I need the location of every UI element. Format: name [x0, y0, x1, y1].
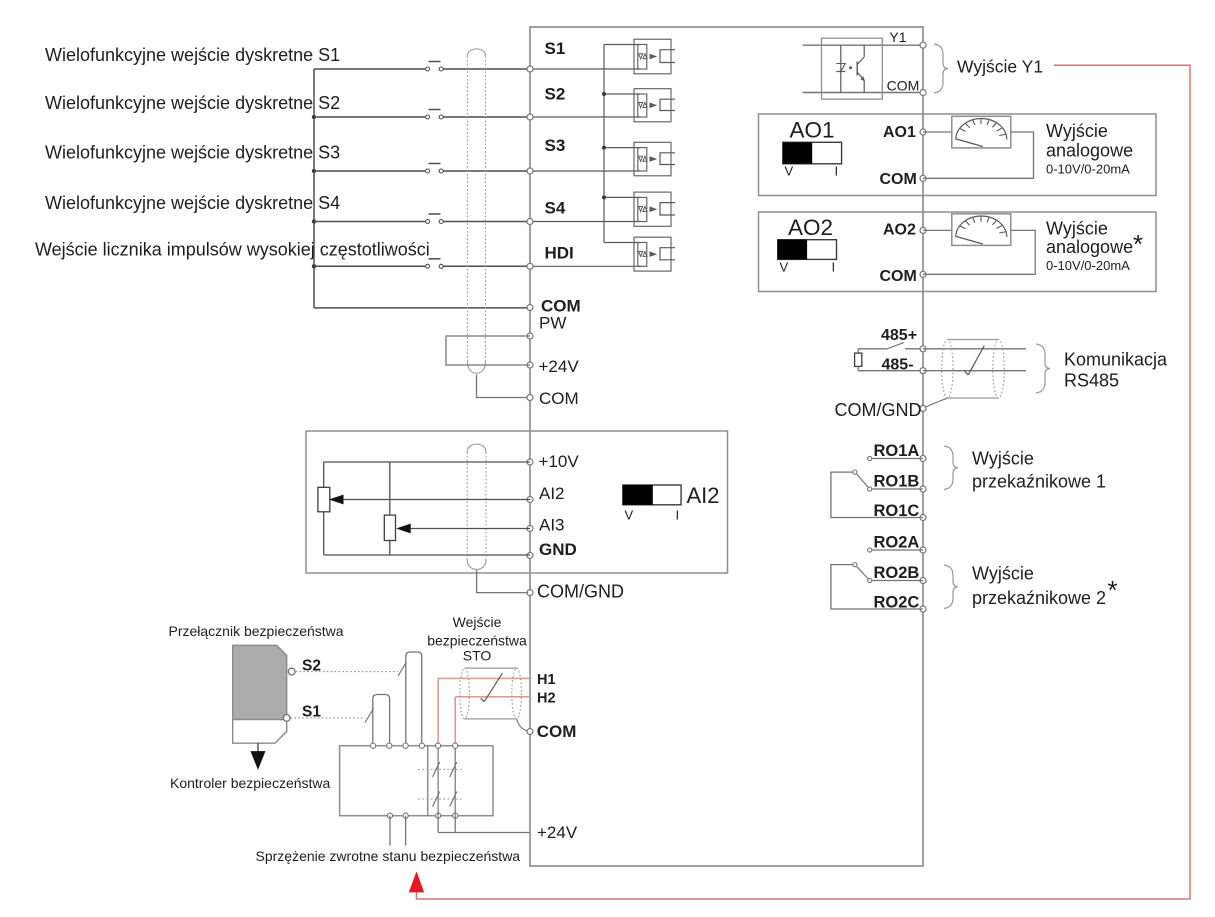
safety controller box — [340, 746, 493, 816]
shield (analog input cable) — [467, 444, 486, 569]
label S2 (safety) — [302, 658, 321, 675]
terminal GND (pin circle) — [527, 553, 533, 559]
label V (AI2) — [625, 508, 634, 523]
LED in Y1 opto — [836, 45, 852, 92]
svg-text:COM/GND: COM/GND — [537, 581, 624, 601]
brace relay 1 — [944, 446, 958, 490]
twisted pair symbol — [965, 346, 985, 375]
wire: bus stub to opto S2 — [604, 93, 640, 95]
wire: shield drain to COM/GND — [926, 398, 948, 407]
terminal PW (pin circle) — [527, 333, 533, 339]
svg-text:I: I — [832, 260, 836, 275]
controller top pin at x=455.2 — [453, 743, 458, 748]
junction on opto bus (S4) — [602, 195, 606, 199]
terminal AO2 — [920, 227, 926, 233]
terminal RO1A — [920, 456, 926, 462]
svg-text:GND: GND — [539, 540, 577, 559]
wire: S3 input left segment — [314, 170, 427, 172]
wire: +10V rail — [324, 461, 530, 463]
wire: HDI input left segment — [314, 265, 427, 267]
svg-text:RO2A: RO2A — [874, 534, 920, 552]
svg-text:COM: COM — [887, 78, 920, 94]
label: 0-10V/0-20mA (AO1) — [1046, 162, 1130, 177]
label: Kontroler bezpieczenstwa — [170, 775, 331, 791]
terminal RO1C — [920, 515, 926, 521]
pin label 485+ — [881, 327, 917, 344]
wire: controller contact line 1 — [437, 748, 439, 816]
asterisk (relay 2) — [1108, 575, 1118, 605]
pin label COM (AO2) — [880, 268, 917, 285]
svg-text:+10V: +10V — [539, 452, 580, 471]
label: Wyjscie przekaznikowe 1 — [972, 449, 1106, 492]
junction on opto bus (S3) — [602, 146, 606, 150]
AO2 V/I selector switch — [778, 240, 837, 260]
svg-text:I: I — [835, 164, 839, 179]
svg-text:Wielofunkcyjne wejście dyskret: Wielofunkcyjne wejście dyskretne S3 — [45, 142, 340, 162]
pin label S1 — [545, 39, 566, 58]
terminal +10V (pin circle) — [527, 459, 533, 465]
controller top pin at x=389.3 — [387, 743, 392, 748]
pin label RO1A — [874, 442, 920, 460]
optocoupler S1 — [634, 39, 675, 74]
svg-text:0-10V/0-20mA: 0-10V/0-20mA — [1046, 258, 1130, 273]
optocoupler S2 — [634, 89, 675, 122]
svg-text:+24V: +24V — [539, 357, 580, 376]
svg-text:RO1B: RO1B — [874, 473, 920, 491]
label AO2 (big) — [788, 215, 833, 240]
wire: 485+ left segment — [858, 348, 886, 350]
wire: Y1 COM bottom — [803, 92, 923, 94]
terminal AO1 — [920, 129, 926, 135]
label V (AO2) — [780, 260, 789, 275]
pin label H1 — [537, 672, 556, 688]
dotted link S2 — [296, 671, 399, 673]
wire: feedback output 2 — [405, 816, 407, 846]
terminal 485- — [920, 368, 926, 374]
wire: S1 input left segment — [314, 68, 427, 70]
wire H1 red — [438, 677, 530, 679]
safety switch body (white) — [233, 720, 287, 744]
terminal RO1B — [920, 486, 926, 492]
shield (discrete input cable) — [468, 49, 486, 373]
terminal HDI (pin circle) — [527, 263, 533, 269]
relay 2 common blade — [853, 563, 868, 579]
label: 0-10V/0-20mA (AO2) — [1046, 258, 1130, 273]
label AO1 (big) — [790, 118, 835, 143]
pin label COM/GND (right) — [835, 400, 922, 420]
controller top pin at x=421.9 — [419, 743, 424, 748]
svg-text:RO1A: RO1A — [874, 442, 920, 460]
wire channel A (S2 loop) — [406, 652, 422, 746]
switch on 485+ (term. resistor) — [886, 343, 923, 350]
svg-text:V: V — [625, 508, 634, 523]
svg-text:analogowe: analogowe — [1046, 237, 1133, 257]
meter symbol (AO2) — [952, 214, 1011, 246]
wire: S3 to terminal — [443, 170, 530, 172]
svg-text:przekaźnikowe 2: przekaźnikowe 2 — [972, 588, 1106, 608]
terminal RO2A — [920, 547, 926, 553]
svg-text:AI2: AI2 — [687, 483, 720, 508]
junction at input bus (S4) — [312, 219, 316, 223]
wire: pot1 vertical — [323, 462, 325, 555]
pin label AI3 — [539, 516, 565, 535]
switch S4 (NO contact) — [426, 214, 444, 224]
dashed gang link 2 — [418, 798, 462, 800]
svg-text:485+: 485+ — [881, 327, 917, 344]
label V (AO1) — [785, 164, 794, 179]
label: Wyjscie przekaznikowe 2 — [972, 564, 1106, 609]
wire: terminal S1 to optocoupler — [530, 68, 640, 70]
terminal Y1 — [920, 42, 926, 48]
svg-text:AI2: AI2 — [539, 484, 565, 503]
terminal COM3 (pin circle) — [527, 729, 533, 735]
controller top pin at x=373 — [370, 743, 375, 748]
terminal AI3 (pin circle) — [527, 526, 533, 532]
svg-text:analogowe: analogowe — [1046, 141, 1133, 161]
wire: bus stub to opto HDI — [604, 242, 640, 244]
pin label +24V (2) — [537, 823, 578, 842]
label I (AI2) — [676, 508, 680, 523]
svg-text:COM: COM — [880, 268, 917, 285]
label AI2 (big) — [687, 483, 720, 508]
wire: feedback output 1 — [389, 816, 391, 846]
pin label HDI — [545, 244, 574, 263]
label: Wyjscie Y1 — [957, 57, 1043, 77]
svg-text:AO1: AO1 — [883, 124, 916, 141]
contact S1 circle — [283, 715, 290, 722]
svg-text:Przełącznik bezpieczeństwa: Przełącznik bezpieczeństwa — [169, 623, 344, 639]
wire H1 red vertical — [437, 678, 439, 745]
phototransistor in Y1 opto — [857, 45, 864, 92]
svg-text:bezpieczeństwa: bezpieczeństwa — [427, 633, 527, 649]
pin label AO1 — [883, 124, 916, 141]
pin label S3 — [545, 136, 566, 155]
wire: terminal HDI to optocoupler — [530, 265, 640, 267]
label I (AO2) — [832, 260, 836, 275]
svg-text:AO2: AO2 — [788, 215, 833, 240]
svg-text:S2: S2 — [545, 85, 566, 104]
svg-text:S3: S3 — [545, 136, 566, 155]
wire: meter AO1 to COM loop — [923, 132, 1034, 178]
wire: H2 return to +24V — [454, 816, 456, 833]
label I (AO1) — [835, 164, 839, 179]
terminal AI2 (pin circle) — [527, 497, 533, 503]
wire RO1B + contact — [868, 487, 923, 491]
pin label PW — [539, 314, 566, 333]
switch S3 (NO contact) — [426, 164, 444, 174]
svg-text:HDI: HDI — [545, 244, 574, 263]
svg-text:AO2: AO2 — [883, 222, 916, 239]
wire: STO shield drain to COM — [517, 719, 528, 731]
pin label +24V — [539, 357, 580, 376]
analog input box — [306, 431, 728, 573]
pin label RO1B — [874, 473, 920, 491]
svg-text:STO: STO — [463, 648, 492, 664]
potentiometer 2 (AI3) — [384, 515, 395, 540]
svg-text:Wyjście Y1: Wyjście Y1 — [957, 57, 1043, 77]
AO2 analog output box — [759, 212, 1157, 292]
wire: controller contact line 2 — [454, 748, 456, 816]
wire: +24V return horizontal — [438, 832, 530, 834]
svg-text:S1: S1 — [545, 39, 566, 58]
wire: AI shield drain to COM/GND — [477, 570, 528, 593]
pin label RO2B — [874, 564, 920, 582]
potentiometer 1 (AI2) — [318, 487, 330, 512]
pin label RO2A — [874, 534, 920, 552]
optocoupler S3 — [634, 142, 675, 176]
svg-text:H2: H2 — [537, 691, 556, 707]
svg-text:I: I — [676, 508, 680, 523]
label: Wyjscie analogowe (AO2) — [1046, 219, 1133, 258]
wire: S2 to terminal — [443, 116, 530, 118]
pin label RO2C — [874, 594, 920, 612]
wire: HDI to terminal — [443, 265, 530, 267]
terminal 485+ — [920, 346, 926, 352]
svg-text:Wejście licznika impulsów wyso: Wejście licznika impulsów wysokiej częst… — [35, 240, 430, 260]
pin label COM (3) — [537, 722, 577, 741]
terminal COM/GND (right) — [920, 405, 926, 411]
terminal COM2 (pin circle) — [527, 395, 533, 401]
safety switch body (gray) — [233, 645, 287, 719]
terminal S1 (pin circle) — [527, 66, 533, 72]
svg-text:przekaźnikowe 1: przekaźnikowe 1 — [972, 472, 1106, 492]
terminal COM/GND (pin circle) — [527, 590, 533, 596]
wire: pot2 vertical — [389, 462, 391, 555]
pin label S2 — [545, 85, 566, 104]
wire: H1 return to +24V — [437, 816, 439, 833]
svg-text:S4: S4 — [545, 199, 566, 218]
shield (RS485 cable) — [942, 340, 1005, 399]
asterisk (AO2) — [1133, 229, 1143, 259]
controller top pin at x=405.6 — [403, 743, 408, 748]
svg-text:Kontroler bezpieczeństwa: Kontroler bezpieczeństwa — [170, 775, 331, 791]
switch blade S2 channel — [398, 662, 407, 676]
svg-text:COM: COM — [539, 389, 579, 408]
main control board block — [530, 27, 923, 866]
wire: terminal S2 to optocoupler — [530, 116, 640, 118]
svg-text:Wielofunkcyjne wejście dyskret: Wielofunkcyjne wejście dyskretne S1 — [45, 45, 340, 65]
terminal S2 (pin circle) — [527, 114, 533, 120]
wire: shield drain to COM — [477, 375, 529, 398]
terminal RO2B — [920, 578, 926, 584]
AO1 analog output box — [759, 114, 1157, 196]
svg-text:V: V — [785, 164, 794, 179]
controller bottom pin at x=455.2 — [453, 813, 458, 818]
switch S2 (NO contact) — [426, 110, 444, 120]
wire: S4 input left segment — [314, 221, 427, 223]
junction at input bus (S2) — [312, 115, 316, 119]
wire: AO2 to meter — [923, 229, 952, 231]
relay 1 common blade — [853, 470, 868, 487]
label: Wejscie bezpieczenstwa STO — [427, 614, 527, 664]
pin label COM (2) — [539, 389, 579, 408]
pin label GND — [539, 540, 577, 559]
AO1 V/I selector switch — [783, 142, 842, 164]
wire: PW to +24V jumper — [446, 336, 530, 365]
label: Wielofunkcyjne wejscie dyskretne S4 — [45, 193, 340, 213]
wire: AI3 wiper — [398, 524, 530, 532]
brace Y1 — [934, 44, 948, 93]
pin label AI2 — [539, 484, 565, 503]
wire H2 red — [455, 696, 530, 698]
svg-text:Wielofunkcyjne wejście dyskret: Wielofunkcyjne wejście dyskretne S4 — [45, 193, 340, 213]
pin label Y1 — [889, 29, 906, 45]
wire: GND rail — [324, 554, 530, 556]
terminal S4 (pin circle) — [527, 219, 533, 225]
switch S1 (NO contact) — [426, 62, 444, 72]
pin label COM/GND — [537, 581, 624, 601]
wire: left common bus vertical — [313, 69, 315, 308]
svg-text:*: * — [1133, 229, 1143, 259]
meter symbol (AO1) — [952, 116, 1011, 148]
svg-text:Wyjście: Wyjście — [972, 449, 1034, 469]
svg-text:RS485: RS485 — [1064, 371, 1119, 391]
switch HDI (NO contact) — [426, 259, 444, 269]
wire: Y1 top — [803, 44, 923, 46]
switch blade S1 channel — [365, 709, 374, 723]
svg-text:COM/GND: COM/GND — [835, 400, 922, 420]
wire: meter AO2 to COM loop — [923, 230, 1035, 274]
brace RS485 — [1036, 344, 1050, 393]
svg-text:Sprzężenie zwrotne stanu bezpi: Sprzężenie zwrotne stanu bezpieczeństwa — [256, 848, 521, 864]
label: Wielofunkcyjne wejscie dyskretne S2 — [45, 93, 340, 113]
svg-text:V: V — [780, 260, 789, 275]
label: Sprzezenie zwrotne stanu bezpieczenstwa — [256, 848, 521, 864]
junction on opto bus (S2) — [602, 92, 606, 96]
wire H2 red vertical — [454, 697, 456, 746]
svg-text:RO2B: RO2B — [874, 564, 920, 582]
wire: bus to COM terminal — [314, 307, 530, 309]
resistor 485 termination — [855, 349, 862, 371]
wire: relay1 common to RO1C — [831, 472, 923, 517]
label: Wejscie licznika impulsow wysokiej czestotliwosci — [35, 240, 430, 260]
brace relay 2 — [944, 565, 958, 609]
junction at input bus (HDI) — [312, 264, 316, 268]
wire: bus stub to opto S3 — [604, 147, 640, 149]
wire RO1A + contact — [868, 456, 923, 460]
pin label S4 — [545, 199, 566, 218]
wire RO2A + contact — [868, 548, 923, 552]
wire: terminal S3 to optocoupler — [530, 170, 640, 172]
svg-text:COM: COM — [537, 722, 577, 741]
pin label 485- — [882, 357, 914, 374]
terminal S3 (pin circle) — [527, 168, 533, 174]
wire: S2 input left segment — [314, 116, 427, 118]
svg-text:Wyjście: Wyjście — [972, 564, 1034, 584]
terminal COM (pin circle) — [527, 305, 533, 311]
red arrow (feedback) — [410, 873, 424, 892]
svg-text:Wielofunkcyjne wejście dyskret: Wielofunkcyjne wejście dyskretne S2 — [45, 93, 340, 113]
terminal COM (AO2) — [920, 271, 926, 277]
dotted link S1 — [291, 717, 366, 719]
terminal COM (AO1) — [920, 175, 926, 181]
black arrow (safety switch) — [251, 743, 265, 768]
wire: bus stub to opto S4 — [604, 196, 640, 198]
pin label +10V — [539, 452, 580, 471]
controller bottom pin at x=438.1 — [436, 813, 441, 818]
controller bottom pin at x=390 — [387, 813, 392, 818]
svg-text:0-10V/0-20mA: 0-10V/0-20mA — [1046, 162, 1130, 177]
svg-text:PW: PW — [539, 314, 566, 333]
wire: terminal S4 to optocoupler — [530, 221, 640, 223]
wire: bus stub to opto S1 — [604, 44, 640, 46]
contact S2 circle — [288, 668, 295, 675]
contact blades row1 — [433, 762, 457, 777]
label S1 (safety) — [302, 704, 321, 721]
svg-text:H1: H1 — [537, 672, 556, 688]
wire: opto supply bus — [603, 45, 605, 243]
pin label RO1C — [874, 502, 920, 520]
terminal +24V (pin circle) — [527, 362, 533, 368]
svg-text:AO1: AO1 — [790, 118, 835, 143]
wire: AI2 wiper — [331, 495, 531, 503]
pin label COM — [541, 297, 581, 316]
label: Wielofunkcyjne wejscie dyskretne S3 — [45, 142, 340, 162]
pin label AO2 — [883, 222, 916, 239]
optocoupler HDI — [634, 237, 675, 271]
svg-text:Komunikacja: Komunikacja — [1064, 350, 1168, 370]
terminal RO2C — [920, 606, 926, 612]
wire: 485- through shield — [923, 370, 1026, 372]
shield (STO cable) — [460, 668, 522, 719]
wire: controller inner vertical — [427, 746, 429, 816]
label: Wyjscie analogowe (AO1) — [1046, 121, 1133, 161]
contact blades row2 — [433, 792, 457, 807]
wire: S1 to terminal — [443, 68, 530, 70]
wire RO2B + contact — [868, 578, 923, 582]
wire: S4 to terminal — [443, 221, 530, 223]
wire: AO1 to meter — [923, 131, 952, 133]
label: Komunikacja RS485 — [1064, 350, 1168, 391]
wire: relay2 common to RO2C — [831, 565, 923, 609]
twisted pair symbol (STO) — [481, 673, 503, 702]
svg-text:Wyjście: Wyjście — [1046, 219, 1108, 239]
svg-text:Wejście: Wejście — [453, 614, 502, 630]
label: Przelacznik bezpieczenstwa — [169, 623, 344, 639]
controller bottom pin at x=405.6 — [403, 813, 408, 818]
wire: safety feedback red line — [417, 65, 1191, 899]
svg-text:*: * — [1108, 575, 1118, 605]
pin label COM (AO1) — [880, 171, 917, 188]
controller top pin at x=438.1 — [436, 743, 441, 748]
junction at input bus (S3) — [312, 169, 316, 173]
AI2 V/I selector switch — [623, 485, 681, 505]
wire: 485+ through shield — [923, 348, 1026, 350]
svg-text:COM: COM — [880, 171, 917, 188]
svg-text:Y1: Y1 — [889, 29, 906, 45]
svg-text:AI3: AI3 — [539, 516, 565, 535]
optocoupler Y1 box — [822, 38, 883, 99]
wire channel B (S1 loop) — [373, 695, 390, 746]
pin label COM (Y1) — [887, 78, 920, 94]
label: Wielofunkcyjne wejscie dyskretne S1 — [45, 45, 340, 65]
terminal COM (Y1) — [920, 90, 926, 96]
dashed gang link 1 — [418, 768, 462, 770]
wire: 485- segment — [858, 370, 923, 372]
optocoupler S4 — [634, 192, 675, 226]
svg-text:+24V: +24V — [537, 823, 578, 842]
pin label H2 — [537, 691, 556, 707]
svg-text:Wyjście: Wyjście — [1046, 121, 1108, 141]
